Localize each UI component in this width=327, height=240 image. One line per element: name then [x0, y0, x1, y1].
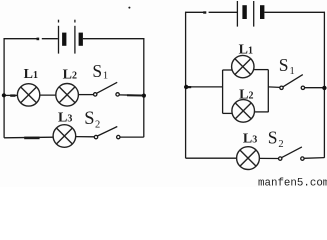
- battery left cell short thick plate: [242, 5, 246, 19]
- lamp L2: [56, 84, 79, 107]
- switch S1: [94, 82, 120, 96]
- wire from L3 to switch S2: [259, 157, 278, 159]
- wire nub before gap: [203, 11, 206, 13]
- wire between L1 and L2: [40, 94, 56, 96]
- switch S2: [94, 127, 120, 139]
- wire nub after left junction: [188, 86, 192, 88]
- switch S2 (right): [279, 147, 305, 160]
- junction node right rail / main branch: [322, 86, 326, 90]
- wire nub bottom branch: [24, 137, 39, 140]
- battery left cell short thick plate: [62, 33, 66, 46]
- junction node left rail / main branch: [184, 85, 188, 89]
- lamp L3: [53, 125, 76, 148]
- switch S2 lever: [282, 147, 302, 158]
- battery left cell long plate: [236, 1, 238, 27]
- wire top lead to battery: [209, 11, 238, 13]
- wire main branch from block to switch S1: [268, 86, 280, 89]
- wire from L3 to switch S2: [76, 136, 95, 138]
- wire top stub right of L1: [254, 69, 269, 71]
- wire left rail: [185, 12, 187, 158]
- wire nub before gap: [37, 38, 40, 41]
- battery tick above right long plate: [74, 20, 76, 23]
- wire nub near right junction: [127, 94, 142, 96]
- wire top lead to battery plate: [42, 38, 58, 40]
- svg-text:L2: L2: [63, 67, 77, 82]
- wire left rail: [3, 38, 5, 138]
- lamp L3 (right): [237, 147, 260, 170]
- switch S1 (right): [280, 75, 305, 90]
- battery right cell short thick plate: [260, 5, 264, 19]
- stray ink speck: [128, 7, 130, 9]
- lamp L1 (right): [232, 55, 254, 77]
- wire right rail: [143, 38, 145, 137]
- lamp L1: [17, 84, 39, 106]
- wire from S1 to right rail: [119, 94, 144, 96]
- wire top lead right of battery: [83, 38, 144, 40]
- wire nub mid branch: [10, 94, 15, 96]
- battery right cell long plate: [253, 1, 255, 27]
- switch S1 lever: [283, 75, 303, 87]
- wire bottom stub left to lamp L2: [223, 112, 233, 114]
- wire top lead left of battery: [185, 11, 205, 13]
- lamp L2 (right): [232, 100, 255, 123]
- junction node right rail / mid branch: [142, 94, 146, 98]
- switch S1 lever: [97, 82, 118, 93]
- battery right cell long plate: [74, 26, 76, 54]
- wire from S1 to right rail: [304, 87, 324, 89]
- switch S2 lever: [97, 127, 117, 137]
- svg-text:L3: L3: [58, 110, 72, 125]
- battery left cell long plate: [58, 26, 60, 54]
- wire right rail: [323, 12, 325, 158]
- wire from L2 to switch S1: [78, 94, 93, 96]
- battery right cell short thick plate: [79, 33, 83, 46]
- wire top lead left of battery: [4, 38, 39, 40]
- wire bottom branch from left rail to lamp L3: [186, 157, 237, 159]
- svg-text:L1: L1: [239, 42, 253, 57]
- svg-text:manfen5.com: manfen5.com: [258, 178, 327, 188]
- wire top stub left to lamp L1: [223, 69, 233, 71]
- battery tick above left long plate: [58, 20, 60, 23]
- wire mid branch from left rail to lamp L1: [4, 94, 17, 96]
- junction node left rail / mid branch: [2, 93, 6, 97]
- wire bottom stub right of L2: [254, 111, 268, 113]
- wire top lead right of battery: [264, 11, 325, 13]
- wire parallel block right connector: [267, 70, 269, 113]
- wire main branch from left rail to parallel block: [186, 86, 223, 88]
- wire from S2 to right rail: [304, 157, 325, 160]
- wire parallel block left connector: [222, 70, 224, 114]
- wire from S2 to right rail: [120, 136, 144, 138]
- svg-text:L1: L1: [24, 67, 38, 82]
- wire bottom branch from left rail to lamp L3: [4, 136, 53, 139]
- svg-text:L2: L2: [239, 87, 253, 102]
- svg-text:L3: L3: [243, 131, 257, 146]
